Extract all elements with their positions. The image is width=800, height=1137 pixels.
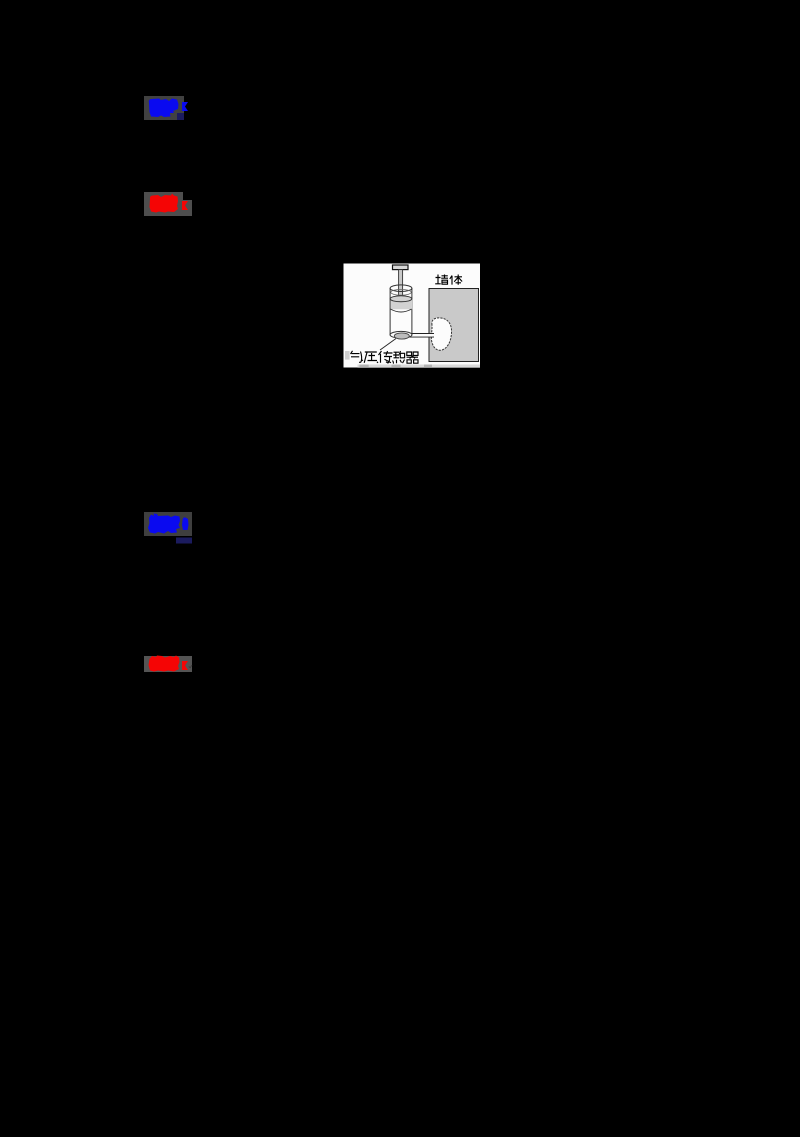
badge 3 navy accent box bbox=[176, 538, 192, 544]
barrel bottom ellipse with sensor bbox=[390, 331, 412, 338]
badge 3 highlight box (gray) bbox=[144, 512, 192, 536]
badge 1 small blue bracket glyph bbox=[182, 102, 188, 111]
air pressure sensor (gray ellipse) bbox=[394, 333, 409, 339]
piston (gray disk in barrel) bbox=[390, 296, 412, 312]
badge 2 small red bracket glyph bbox=[182, 201, 188, 210]
bottom gray strip darker segment 1 bbox=[360, 365, 369, 368]
small gray square at figure left edge bbox=[345, 351, 350, 360]
badge 2 highlight box right extension bbox=[183, 200, 192, 216]
badge 1 highlight box (gray) bbox=[144, 96, 184, 120]
pointer line from sensor to caption bbox=[380, 339, 396, 351]
badge 4 small red bracket glyph bbox=[182, 661, 188, 670]
connecting tube from syringe to cavity bbox=[409, 334, 434, 338]
badge 3 blue label text blob bbox=[148, 514, 189, 534]
badge 1 blue label text blob bbox=[149, 99, 179, 118]
badge 4 red label text blob bbox=[149, 656, 180, 672]
bottom gray strip (light) bbox=[358, 365, 481, 368]
badge 4 tiny gray check mark bbox=[189, 665, 192, 668]
wall (gray rectangle) bbox=[429, 289, 479, 362]
badge 1 navy accent box bbox=[177, 113, 184, 120]
syringe barrel inner lip ellipse bbox=[391, 289, 411, 295]
syringe barrel top rim ellipse bbox=[390, 285, 412, 292]
wall cavity (white blob) bbox=[431, 318, 451, 350]
syringe plunger handle bar bbox=[393, 265, 409, 270]
syringe barrel walls bbox=[390, 288, 412, 336]
wall label 墙体 (drawn glyph strokes) bbox=[435, 275, 462, 285]
badge 4 highlight box (gray) bbox=[144, 656, 192, 672]
figure panel white background bbox=[344, 264, 481, 368]
bottom gray strip darker segment 3 bbox=[424, 365, 432, 368]
caption 气压传感器 (drawn glyph strokes) bbox=[351, 351, 419, 364]
syringe plunger rod bbox=[399, 270, 403, 300]
bottom gray strip darker segment 2 bbox=[392, 365, 401, 368]
badge 2 highlight box (gray) bbox=[144, 192, 183, 216]
badge 2 red label text blob bbox=[150, 194, 179, 213]
